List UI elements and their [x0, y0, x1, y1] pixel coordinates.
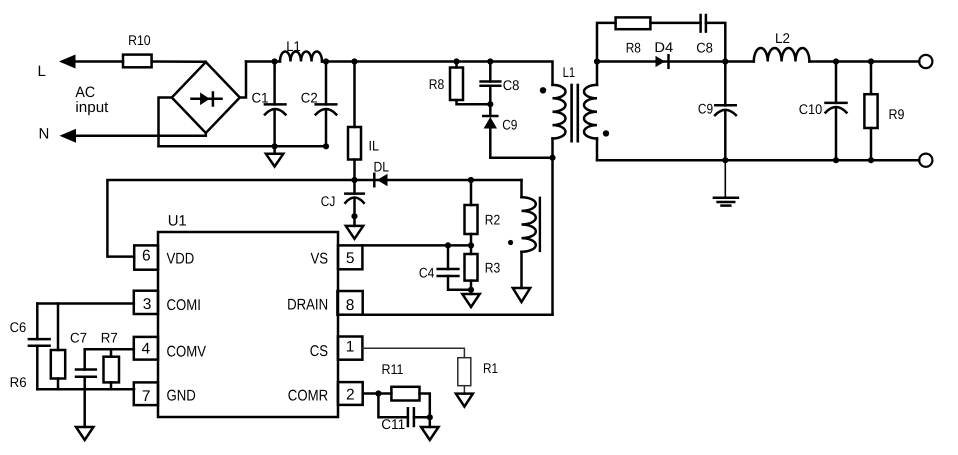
transformer L1 primary winding: [553, 85, 566, 139]
wire bridge bottom stub: [205, 133, 208, 136]
diode DL: [377, 174, 388, 186]
pin 7 box: [134, 382, 158, 405]
capacitor C8 (primary snubber): [489, 62, 492, 82]
transformer L1 secondary winding: [596, 62, 599, 85]
wire rail to L2: [725, 60, 754, 63]
resistor R2: [470, 180, 473, 205]
resistor R7: [110, 349, 113, 357]
wire COMV pin 4: [85, 348, 134, 351]
svg-text:R3: R3: [485, 260, 501, 276]
capacitor C7: [83, 349, 86, 369]
capacitor C8 (secondary snubber): [699, 15, 702, 32]
pin 5 box: [338, 245, 362, 269]
svg-text:C9: C9: [502, 117, 517, 133]
wire COMR pin 2: [363, 392, 392, 395]
svg-text:L2: L2: [775, 30, 790, 46]
svg-text:C11: C11: [381, 416, 405, 432]
svg-text:1: 1: [346, 338, 355, 355]
capacitor C10: [835, 62, 838, 103]
wire top rail middle part: [322, 62, 553, 85]
capacitor C9 (output): [724, 62, 727, 106]
svg-text:3: 3: [143, 296, 152, 313]
svg-text:DRAIN: DRAIN: [287, 297, 328, 314]
svg-text:C8: C8: [696, 39, 713, 55]
svg-text:C1: C1: [252, 89, 269, 105]
ground (below C7): [76, 427, 93, 440]
svg-text:IL: IL: [369, 138, 380, 154]
resistor R8 (primary snubber): [455, 62, 458, 68]
wire secondary output line: [597, 60, 725, 63]
svg-text:R8: R8: [429, 76, 445, 92]
resistor IL: [353, 62, 356, 128]
capacitor C11: [378, 394, 408, 418]
diode D4: [656, 56, 666, 67]
transformer core: [570, 85, 573, 141]
svg-text:C7: C7: [70, 329, 87, 345]
svg-text:VS: VS: [311, 251, 329, 268]
svg-text:R11: R11: [382, 361, 404, 377]
resistor R6: [57, 304, 60, 351]
svg-text:CJ: CJ: [321, 193, 336, 209]
wire top rail left part: [246, 60, 280, 63]
inductor L1 (filter): [280, 52, 322, 62]
svg-text:L1: L1: [286, 38, 301, 54]
capacitor C1: [273, 62, 276, 105]
pin 3 box: [134, 291, 158, 314]
svg-text:C2: C2: [301, 89, 318, 105]
wire L input line: [74, 60, 124, 63]
svg-text:COMV: COMV: [167, 344, 207, 361]
svg-text:2: 2: [346, 387, 355, 404]
wire primary bottom to drain line: [551, 158, 554, 315]
node L arrowhead: [59, 55, 76, 69]
ground (below C11): [429, 417, 432, 427]
IC U1: [158, 232, 338, 417]
svg-text:VDD: VDD: [167, 251, 195, 268]
svg-text:8: 8: [346, 297, 355, 314]
capacitor C4: [447, 245, 450, 269]
wire bridge left vertex to bottom rail: [159, 98, 172, 147]
ground (below R1): [456, 394, 473, 407]
svg-text:COMR: COMR: [288, 387, 328, 404]
pin 1 box: [338, 337, 363, 360]
resistor R11: [391, 387, 419, 401]
wire bridge right vertex up to top rail: [240, 62, 246, 98]
svg-text:C6: C6: [10, 319, 27, 335]
svg-text:input: input: [75, 99, 109, 116]
wire R10 to bridge top: [152, 60, 206, 63]
svg-text:5: 5: [346, 250, 355, 267]
ground (below C1): [273, 146, 276, 154]
node transformer phase dots: [540, 87, 546, 93]
svg-text:R9: R9: [889, 106, 905, 122]
wire bottom rail (C1/C2 ground rail): [159, 145, 327, 148]
wire VS pin 5: [362, 244, 471, 247]
svg-text:DL: DL: [374, 158, 390, 174]
node output terminal plus: [919, 55, 932, 68]
node junction dots: [272, 58, 278, 64]
svg-text:C9: C9: [698, 101, 713, 117]
diode bridge rectifier: [172, 62, 240, 133]
wire GND rail to pin 7: [37, 388, 134, 391]
svg-text:R1: R1: [483, 360, 498, 376]
wire secondary snubber branch: [597, 23, 616, 62]
pin 6 box: [134, 245, 158, 269]
svg-text:C4: C4: [419, 265, 435, 281]
svg-text:L1: L1: [563, 64, 576, 80]
diode C9 (primary clamp): [483, 115, 497, 118]
svg-text:COMI: COMI: [167, 297, 201, 314]
resistor R1: [458, 358, 471, 386]
resistor R3: [470, 245, 473, 254]
resistor R9: [870, 62, 873, 95]
svg-text:R8: R8: [626, 40, 641, 56]
svg-text:U1: U1: [168, 213, 187, 230]
pin 8 box: [337, 291, 362, 315]
earth ground: [724, 160, 726, 197]
ground (below R3): [462, 294, 479, 307]
capacitor C2: [325, 62, 328, 105]
svg-text:N: N: [39, 126, 50, 143]
pin 4 box: [134, 337, 158, 360]
inductor L2: [754, 48, 810, 62]
wire N input line: [74, 134, 206, 137]
wire COMI pin 3: [37, 302, 134, 305]
capacitor C6: [36, 304, 39, 340]
svg-text:C10: C10: [799, 101, 823, 117]
wire bottom output rail: [597, 159, 919, 162]
svg-text:R2: R2: [485, 212, 501, 228]
aux winding core: [539, 198, 541, 251]
svg-text:D4: D4: [654, 39, 673, 55]
svg-text:C8: C8: [503, 77, 520, 93]
wire L2 to output terminal: [809, 60, 919, 63]
wire CS pin 1: [363, 348, 465, 357]
capacitor CJ: [353, 180, 356, 194]
svg-text:CS: CS: [310, 343, 328, 360]
svg-text:R10: R10: [128, 32, 151, 48]
wire VDD route to pin 6: [107, 180, 354, 257]
svg-text:R7: R7: [101, 329, 118, 345]
svg-text:GND: GND: [167, 388, 196, 405]
ground (below aux winding): [513, 288, 530, 302]
resistor R10: [123, 55, 152, 68]
svg-text:L: L: [38, 63, 46, 80]
pin 2 box: [338, 382, 363, 405]
inductor aux winding: [520, 180, 523, 197]
resistor R8 (secondary snubber): [616, 17, 651, 29]
svg-text:7: 7: [142, 388, 151, 405]
svg-text:4: 4: [141, 340, 150, 357]
svg-text:R6: R6: [10, 374, 27, 390]
node output terminal minus: [919, 154, 932, 167]
wire DL line: [355, 179, 522, 182]
wire clamp to primary bottom: [490, 156, 552, 159]
wire DRAIN pin 8: [363, 313, 553, 316]
svg-text:6: 6: [142, 247, 151, 264]
node N arrowhead: [60, 129, 77, 143]
ground (below CJ): [346, 226, 363, 239]
